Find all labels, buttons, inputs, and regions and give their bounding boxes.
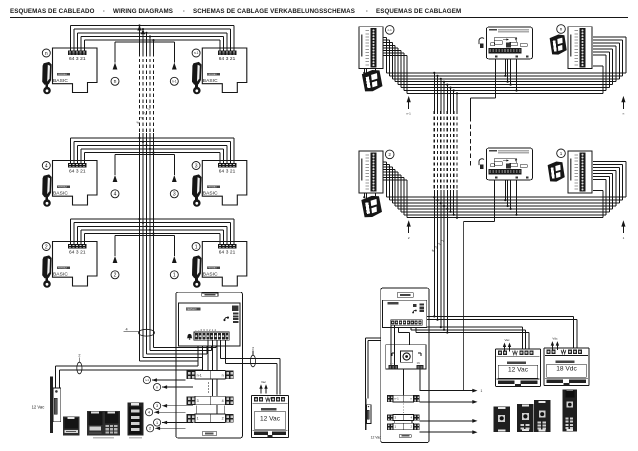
svg-text:SCHEMAS DE CABLAGE VERKABELUNG: SCHEMAS DE CABLAGE VERKABELUNGSSCHEMAS — [193, 8, 355, 15]
svg-text:n-1: n-1 — [145, 378, 149, 382]
svg-text:ESQUEMAS DE CABLAGEM: ESQUEMAS DE CABLAGEM — [376, 8, 461, 15]
svg-text:4: 4 — [222, 399, 224, 403]
svg-text:n-1: n-1 — [197, 373, 202, 377]
svg-text:2: 2 — [114, 273, 117, 279]
svg-text:3: 3 — [156, 404, 158, 408]
svg-text:n-1: n-1 — [194, 51, 199, 55]
svg-text:12 Vac: 12 Vac — [371, 435, 382, 439]
svg-text:BASIC: BASIC — [53, 191, 68, 197]
svg-text:Vac: Vac — [261, 380, 266, 384]
svg-text:1: 1 — [156, 421, 158, 425]
svg-text:3: 3 — [173, 192, 176, 198]
svg-text:n-1: n-1 — [172, 80, 177, 84]
svg-text:18 Vdc: 18 Vdc — [556, 366, 577, 373]
svg-text:·: · — [103, 8, 105, 15]
svg-text:n-1: n-1 — [395, 397, 400, 401]
svg-text:·: · — [366, 8, 368, 15]
svg-text:64 3 21: 64 3 21 — [69, 250, 86, 256]
svg-text:2: 2 — [388, 152, 391, 157]
svg-text:12 Vac: 12 Vac — [508, 366, 529, 373]
svg-text:2: 2 — [45, 244, 48, 250]
svg-text:64 3 21: 64 3 21 — [219, 56, 236, 62]
svg-text:4: 4 — [45, 163, 48, 169]
svg-text:n: n — [560, 27, 563, 32]
svg-text:1: 1 — [481, 389, 483, 393]
svg-text:n-1: n-1 — [388, 28, 393, 32]
svg-text:2: 2 — [149, 427, 151, 431]
svg-text:1: 1 — [197, 417, 199, 421]
svg-text:n-1: n-1 — [407, 112, 412, 116]
svg-text:2: 2 — [78, 353, 80, 357]
svg-text:·: · — [183, 8, 185, 15]
svg-text:64 3 21: 64 3 21 — [69, 169, 86, 175]
svg-text:1: 1 — [560, 151, 563, 156]
svg-text:CV: CV — [417, 362, 421, 365]
svg-text:n: n — [45, 51, 48, 57]
svg-text:n: n — [156, 386, 158, 390]
svg-text:FERMAX: FERMAX — [187, 308, 197, 311]
svg-text:3: 3 — [195, 163, 198, 169]
svg-text:BASIC: BASIC — [53, 78, 68, 84]
svg-text:BASIC: BASIC — [203, 78, 218, 84]
svg-text:FERMAX: FERMAX — [208, 73, 218, 76]
svg-text:1: 1 — [173, 273, 176, 279]
svg-text:BASIC: BASIC — [203, 272, 218, 278]
svg-text:WIRING DIAGRAMS: WIRING DIAGRAMS — [113, 8, 173, 15]
svg-text:Vac: Vac — [505, 338, 510, 342]
svg-text:12 Vac: 12 Vac — [32, 404, 45, 409]
svg-text:FERMAX: FERMAX — [58, 186, 68, 189]
svg-text:n: n — [114, 79, 117, 85]
svg-text:3: 3 — [197, 399, 199, 403]
svg-text:2: 2 — [222, 417, 224, 421]
svg-text:n: n — [222, 373, 224, 377]
svg-text:FERMAX: FERMAX — [208, 186, 218, 189]
svg-text:64 3 21: 64 3 21 — [219, 169, 236, 175]
svg-text:1: 1 — [195, 244, 198, 250]
svg-text:Vdc: Vdc — [552, 337, 558, 341]
svg-text:64 3 21: 64 3 21 — [69, 56, 86, 62]
svg-text:BASIC: BASIC — [53, 272, 68, 278]
svg-text:FERMAX: FERMAX — [58, 267, 68, 270]
svg-text:BASIC: BASIC — [203, 191, 218, 197]
svg-text:4: 4 — [125, 327, 127, 331]
svg-text:ESQUEMAS DE CABLEADO: ESQUEMAS DE CABLEADO — [10, 8, 95, 15]
svg-text:12 Vac: 12 Vac — [260, 416, 281, 423]
svg-text:FERMAX: FERMAX — [58, 73, 68, 76]
svg-text:64 3 21: 64 3 21 — [219, 250, 236, 256]
svg-text:2: 2 — [252, 346, 254, 350]
svg-text:4: 4 — [114, 192, 117, 198]
svg-text:~ ~ 0 6 3 2 1 4: ~ ~ 0 6 3 2 1 4 — [195, 328, 216, 332]
svg-text:4: 4 — [148, 411, 150, 415]
svg-text:FERMAX: FERMAX — [208, 267, 218, 270]
